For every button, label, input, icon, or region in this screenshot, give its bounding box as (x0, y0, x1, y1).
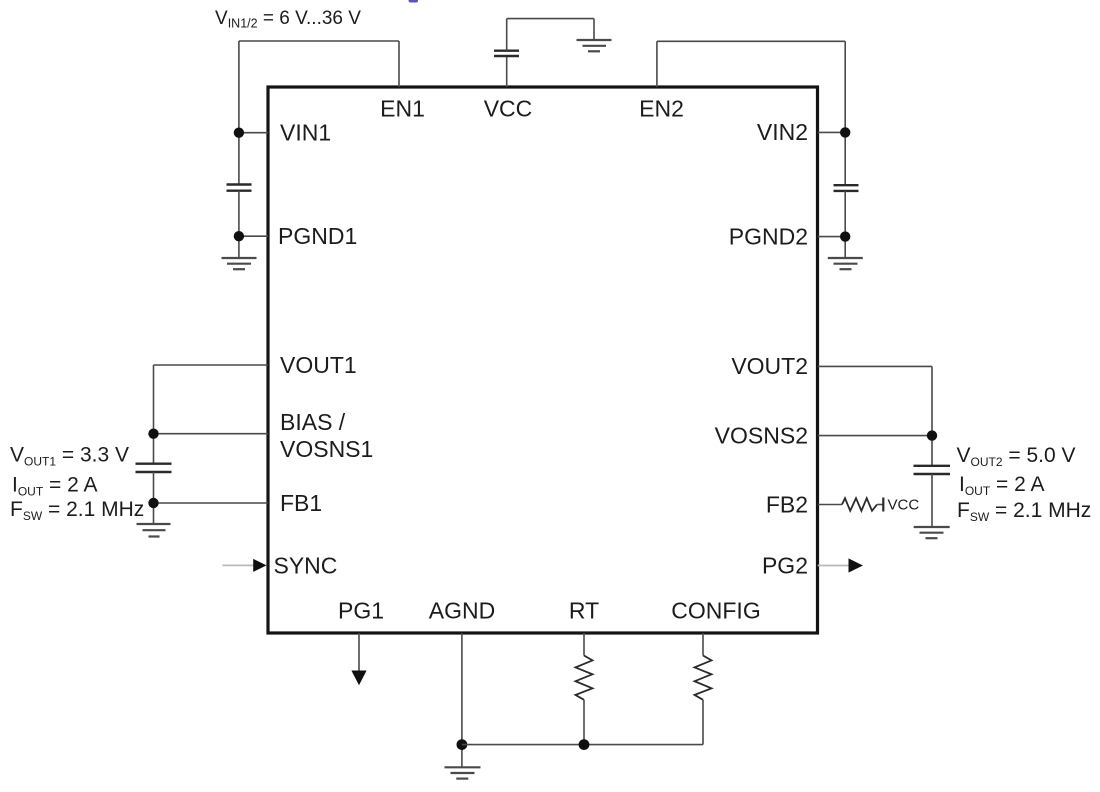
svg-text:VOUT2 = 5.0 V: VOUT2 = 5.0 V (957, 444, 1076, 469)
svg-text:AGND: AGND (429, 598, 495, 624)
wire VOUT2 to VOSNS2 vertical (931, 366, 933, 465)
resistor RFB2 (842, 498, 877, 511)
capacitor CVCC (494, 51, 519, 56)
svg-text:PG2: PG2 (762, 552, 808, 578)
ground FB1 (137, 524, 171, 537)
label FSW = 2.1 MHz (left) (10, 498, 144, 523)
wire CONFIG lower stub (702, 700, 704, 745)
wire VOUT1 stub (154, 364, 269, 366)
pin label CONFIG (671, 598, 760, 624)
ground VCC (577, 40, 612, 51)
wire VCC ground drop (593, 19, 595, 40)
net label VCC (888, 497, 920, 514)
svg-text:FB1: FB1 (280, 490, 322, 516)
wire VIN1 stub (239, 132, 268, 134)
wire PGND2 stub (818, 236, 846, 238)
wire RT lower stub (583, 700, 585, 745)
node BIAS junction (148, 429, 158, 439)
pin label BIAS / VOSNS1 (280, 409, 373, 462)
resistor RT (576, 656, 593, 700)
svg-text:FB2: FB2 (766, 491, 808, 517)
wire COUT2 to ground (931, 474, 933, 527)
node VIN2 junction (840, 127, 850, 137)
svg-text:RT: RT (569, 598, 599, 624)
wire RT upper stub (583, 633, 585, 656)
wire VOUT2 stub (818, 365, 932, 367)
wire BIAS stub (154, 433, 269, 435)
svg-text:VCC: VCC (888, 497, 920, 514)
ground COUT2 (914, 527, 950, 538)
wire FB2 stub (818, 504, 842, 506)
IC body U1 (268, 87, 818, 633)
wire EN2 top horizontal (657, 40, 845, 42)
svg-text:IOUT = 2 A: IOUT = 2 A (959, 473, 1044, 498)
wire VCC riser (506, 56, 508, 87)
wire RFB2 to VCC tick (877, 504, 883, 506)
svg-text:IOUT = 2 A: IOUT = 2 A (12, 474, 97, 499)
svg-text:FSW = 2.1 MHz: FSW = 2.1 MHz (957, 499, 1091, 524)
wire CONFIG upper stub (702, 633, 704, 656)
pin label EN1 (380, 96, 425, 122)
svg-text:VIN2: VIN2 (757, 119, 808, 145)
wire CIN1 to PGND1 (238, 191, 240, 258)
ground PGND1 (222, 258, 257, 269)
pin label PG1 (338, 598, 384, 624)
wire EN1 drop (398, 41, 400, 87)
pin label PGND2 (729, 224, 808, 250)
pin label VOUT1 (280, 352, 357, 378)
wire SYNC input (gray) (222, 564, 254, 566)
wire VOUT1 to BIAS vertical (153, 365, 155, 464)
svg-text:SYNC: SYNC (274, 552, 338, 578)
resistor RCONFIG (695, 656, 712, 700)
label VOUT2 = 5.0 V (957, 444, 1076, 469)
pin label SYNC (274, 552, 338, 578)
wire VIN2 vertical (844, 41, 846, 185)
capacitor COUT2 (914, 466, 951, 474)
pin label VOSNS2 (715, 422, 808, 448)
svg-text:EN1: EN1 (380, 96, 425, 122)
node VIN1 junction (234, 128, 244, 138)
label VOUT1 = 3.3 V (10, 444, 129, 469)
arrowhead PG2 (849, 558, 863, 572)
svg-text:EN2: EN2 (639, 96, 684, 122)
svg-text:PGND2: PGND2 (729, 224, 808, 250)
wire EN2 riser (656, 41, 658, 87)
wire VIN1 vertical (238, 41, 240, 185)
svg-text:VOUT2: VOUT2 (731, 353, 808, 379)
svg-text:VOUT1: VOUT1 (280, 352, 357, 378)
node PGND2 junction (840, 231, 850, 241)
arrowhead PG1 (351, 671, 366, 686)
pin label PG2 (762, 552, 808, 578)
arrowhead SYNC (253, 559, 266, 572)
wire VIN2 stub (818, 131, 846, 133)
wire AGND drop (461, 633, 463, 767)
label FSW = 2.1 MHz (right) (957, 499, 1091, 524)
svg-text:VCC: VCC (484, 96, 533, 122)
net tick VCC (882, 498, 884, 512)
pin label VIN2 (757, 119, 808, 145)
ground PGND2 (828, 258, 863, 269)
wire PG2 output (gray) (818, 565, 849, 567)
pin label EN2 (639, 96, 684, 122)
svg-text:FSW = 2.1 MHz: FSW = 2.1 MHz (10, 498, 144, 523)
wire FB1 stub (154, 502, 269, 504)
pin label AGND (429, 598, 495, 624)
wire bottom bus (462, 744, 703, 746)
label IOUT = 2 A (right) (959, 473, 1044, 498)
svg-text:VOUT1 = 3.3 V: VOUT1 = 3.3 V (10, 444, 129, 469)
pin label PGND1 (278, 223, 357, 249)
svg-text:BIAS /: BIAS / (280, 409, 346, 435)
capacitor COUT1 (136, 464, 172, 472)
label IOUT = 2 A (left) (12, 474, 97, 499)
capacitor CIN2 (834, 185, 859, 191)
pin label RT (569, 598, 599, 624)
svg-text:PGND1: PGND1 (278, 223, 357, 249)
node FB1 junction (148, 498, 158, 508)
blue artifact (cropped text) (409, 0, 419, 3)
wire COUT1 to FB1 (153, 472, 155, 524)
node PGND1 junction (234, 231, 244, 241)
node VOSNS2 junction (927, 430, 937, 440)
pin label VCC (484, 96, 533, 122)
wire VOSNS2 stub (818, 435, 932, 437)
wire CVCC top to horizontal (506, 19, 508, 51)
pin label FB1 (280, 490, 322, 516)
svg-text:PG1: PG1 (338, 598, 384, 624)
node RT junction (579, 739, 590, 750)
svg-text:CONFIG: CONFIG (671, 598, 760, 624)
wire PGND1 stub (239, 235, 268, 237)
wire input supply top horizontal (239, 40, 399, 42)
pin label VIN1 (280, 119, 331, 145)
label VIN1/2 = 6 V...36 V (215, 8, 361, 31)
ground AGND (445, 767, 481, 778)
svg-text:VOSNS2: VOSNS2 (715, 422, 808, 448)
wire PG1 drop (358, 633, 360, 671)
wire VCC top horizontal (507, 18, 594, 20)
svg-text:VIN1/2 = 6 V...36 V: VIN1/2 = 6 V...36 V (215, 8, 361, 31)
capacitor CIN1 (227, 185, 252, 191)
pin label VOUT2 (731, 353, 808, 379)
svg-text:VIN1: VIN1 (280, 119, 331, 145)
svg-text:VOSNS1: VOSNS1 (280, 436, 373, 462)
pin label FB2 (766, 491, 808, 517)
node AGND junction (457, 739, 468, 750)
wire CIN2 to PGND2 (844, 191, 846, 258)
